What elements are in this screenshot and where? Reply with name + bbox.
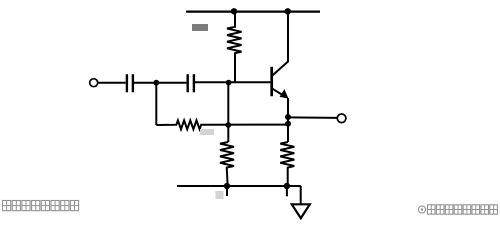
- resistor R1 (collector-bias resistor, vertical below top rail): [227, 12, 242, 82]
- wire bias column upper segment: [227, 82, 229, 142]
- node junction dot emitter column at output line: [285, 114, 291, 120]
- label remnant (faint grey smudge below R3): [200, 129, 214, 135]
- wire base lead C2 to transistor base: [195, 81, 270, 83]
- node junction dot on top rail at R1: [231, 8, 237, 14]
- node junction dot on top rail at collector: [285, 8, 291, 14]
- wire stub below bottom rail at bias column: [226, 186, 228, 196]
- ground symbol (open triangle): [292, 204, 310, 218]
- transistor Q1 (NPN) base bar: [270, 67, 273, 96]
- node junction dot emitter column at feedback line: [285, 121, 291, 127]
- transistor Q1 emitter lead with arrow: [273, 89, 287, 98]
- wire ground stub: [300, 186, 302, 204]
- node junction dot bias column at feedback line: [225, 122, 231, 128]
- wire bottom rail: [177, 185, 301, 187]
- node junction dot emitter column at bottom rail: [284, 183, 290, 189]
- wire output line to terminal: [288, 116, 337, 119]
- node junction dot on base line at bias column: [226, 80, 232, 86]
- label remnant (grey dash watermark block): [192, 24, 208, 31]
- label remnant (faint grey smudge below rail): [216, 191, 224, 199]
- capacitor C1 (input coupling, two vertical plates): [127, 74, 133, 92]
- output terminal (open circle): [337, 114, 346, 123]
- wire C1 to C2: [134, 82, 186, 84]
- node junction dot bias column at bottom rail: [224, 183, 230, 189]
- wire drop from C1/C2 node down to bias line: [155, 83, 157, 125]
- watermark bottom-right: [418, 205, 497, 214]
- wire top supply rail: [186, 11, 320, 13]
- wire input to C1: [97, 82, 125, 84]
- resistor R3 (horizontal, in feedback/bias line): [156, 120, 287, 129]
- resistor R2 (bias column, vertical): [220, 142, 234, 186]
- transistor Q1 collector lead: [273, 12, 289, 76]
- node junction dot between C1 and C2: [153, 80, 159, 86]
- wire stub below bottom rail at emitter column: [286, 186, 288, 196]
- watermark bottom-left: [3, 201, 79, 211]
- resistor R4 (emitter resistor, vertical): [280, 142, 294, 186]
- capacitor C2 (second coupling cap, two vertical plates): [188, 74, 194, 92]
- input terminal (open circle): [90, 79, 98, 87]
- wire emitter column down: [287, 98, 289, 142]
